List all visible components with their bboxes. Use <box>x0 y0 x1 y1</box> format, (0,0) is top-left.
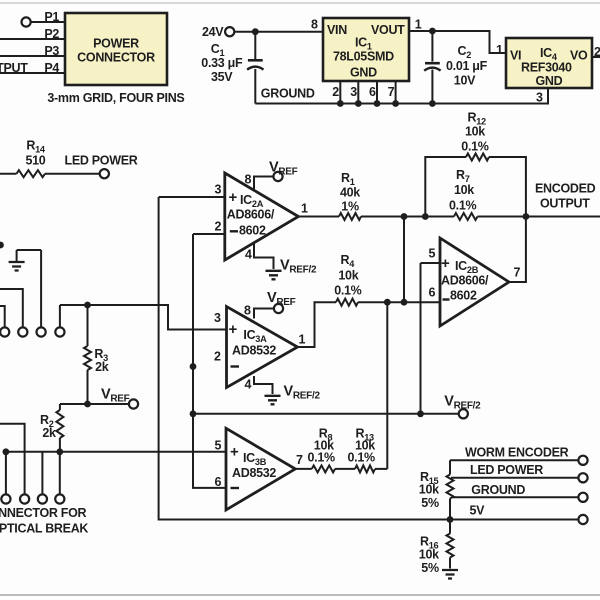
svg-text:2k: 2k <box>95 360 109 374</box>
svg-text:AD8606/: AD8606/ <box>227 208 275 222</box>
svg-text:0.1%: 0.1% <box>348 450 375 464</box>
svg-text:VOUT: VOUT <box>371 23 405 37</box>
svg-text:8: 8 <box>244 304 251 318</box>
svg-text:5%: 5% <box>421 496 439 510</box>
svg-text:4: 4 <box>245 248 252 262</box>
svg-text:+: + <box>441 255 450 272</box>
svg-text:6: 6 <box>369 85 376 99</box>
svg-text:7: 7 <box>296 453 303 467</box>
svg-text:8: 8 <box>245 173 252 187</box>
svg-text:P3: P3 <box>44 44 59 58</box>
svg-text:GND: GND <box>536 74 563 88</box>
svg-text:2k: 2k <box>42 426 56 440</box>
svg-text:LED POWER: LED POWER <box>65 154 138 168</box>
svg-text:+: + <box>230 444 239 461</box>
svg-text:24V: 24V <box>202 25 224 39</box>
svg-text:5%: 5% <box>421 561 439 575</box>
svg-text:P2: P2 <box>44 27 59 41</box>
svg-text:POWER: POWER <box>93 37 139 51</box>
svg-text:GND: GND <box>350 66 377 80</box>
svg-text:AD8532: AD8532 <box>232 344 276 358</box>
svg-text:OUTPUT: OUTPUT <box>540 197 590 211</box>
svg-text:0.1%: 0.1% <box>334 283 361 297</box>
svg-text:78L05SMD: 78L05SMD <box>333 50 394 64</box>
svg-text:3: 3 <box>536 91 543 105</box>
svg-text:6: 6 <box>429 286 436 300</box>
svg-text:CONNECTOR: CONNECTOR <box>77 51 155 65</box>
svg-text:10k: 10k <box>465 125 485 139</box>
svg-text:6: 6 <box>215 475 222 489</box>
svg-text:40k: 40k <box>340 185 360 199</box>
svg-text:10k: 10k <box>454 183 474 197</box>
svg-text:510: 510 <box>26 154 46 168</box>
svg-text:35V: 35V <box>211 70 233 84</box>
svg-text:0.1%: 0.1% <box>308 450 335 464</box>
svg-text:OPTICAL BREAK: OPTICAL BREAK <box>0 522 88 536</box>
svg-text:2: 2 <box>594 45 600 59</box>
svg-text:+: + <box>229 189 238 206</box>
svg-text:VIN: VIN <box>327 23 347 37</box>
svg-text:VI: VI <box>510 49 521 63</box>
svg-text:5: 5 <box>215 439 222 453</box>
svg-text:10k: 10k <box>419 548 439 562</box>
svg-text:3: 3 <box>350 85 357 99</box>
svg-text:1: 1 <box>299 333 306 347</box>
svg-text:5: 5 <box>429 247 436 261</box>
svg-text:0.33 μF: 0.33 μF <box>201 56 243 70</box>
svg-text:7: 7 <box>514 266 521 280</box>
svg-text:8: 8 <box>311 18 318 32</box>
svg-text:LED POWER: LED POWER <box>470 463 543 477</box>
svg-text:0.1%: 0.1% <box>461 140 488 154</box>
svg-text:WORM ENCODER: WORM ENCODER <box>465 445 569 459</box>
svg-text:10k: 10k <box>338 269 358 283</box>
svg-text:8602: 8602 <box>450 289 477 303</box>
svg-text:1: 1 <box>496 43 503 57</box>
svg-text:4: 4 <box>245 378 252 392</box>
svg-text:2: 2 <box>215 220 222 234</box>
svg-text:REF3040: REF3040 <box>521 61 572 75</box>
svg-text:1%: 1% <box>341 199 359 213</box>
svg-text:CONNECTOR FOR: CONNECTOR FOR <box>0 506 87 520</box>
svg-text:ENCODED: ENCODED <box>535 182 596 196</box>
svg-text:VO: VO <box>570 49 588 63</box>
svg-text:0.01 μF: 0.01 μF <box>446 59 488 73</box>
svg-text:AD8606/: AD8606/ <box>441 274 489 288</box>
svg-text:3: 3 <box>215 183 222 197</box>
svg-text:2: 2 <box>332 85 339 99</box>
svg-text:8602: 8602 <box>239 224 266 238</box>
svg-text:2: 2 <box>214 350 221 364</box>
svg-text:0.1%: 0.1% <box>449 199 476 213</box>
svg-text:10k: 10k <box>419 483 439 497</box>
svg-text:AD8532: AD8532 <box>232 466 276 480</box>
svg-text:5V: 5V <box>470 504 486 518</box>
svg-text:10V: 10V <box>454 74 476 88</box>
svg-text:+: + <box>229 321 238 338</box>
svg-text:1: 1 <box>415 18 422 32</box>
svg-text:GROUND: GROUND <box>261 87 315 101</box>
svg-text:1: 1 <box>301 202 308 216</box>
svg-text:OUTPUT: OUTPUT <box>0 61 28 75</box>
svg-text:7: 7 <box>388 85 395 99</box>
svg-text:P4: P4 <box>44 61 59 75</box>
svg-text:3-mm GRID, FOUR PINS: 3-mm GRID, FOUR PINS <box>47 91 184 105</box>
svg-text:3: 3 <box>214 311 221 325</box>
svg-text:GROUND: GROUND <box>471 483 525 497</box>
svg-text:P1: P1 <box>44 10 59 24</box>
